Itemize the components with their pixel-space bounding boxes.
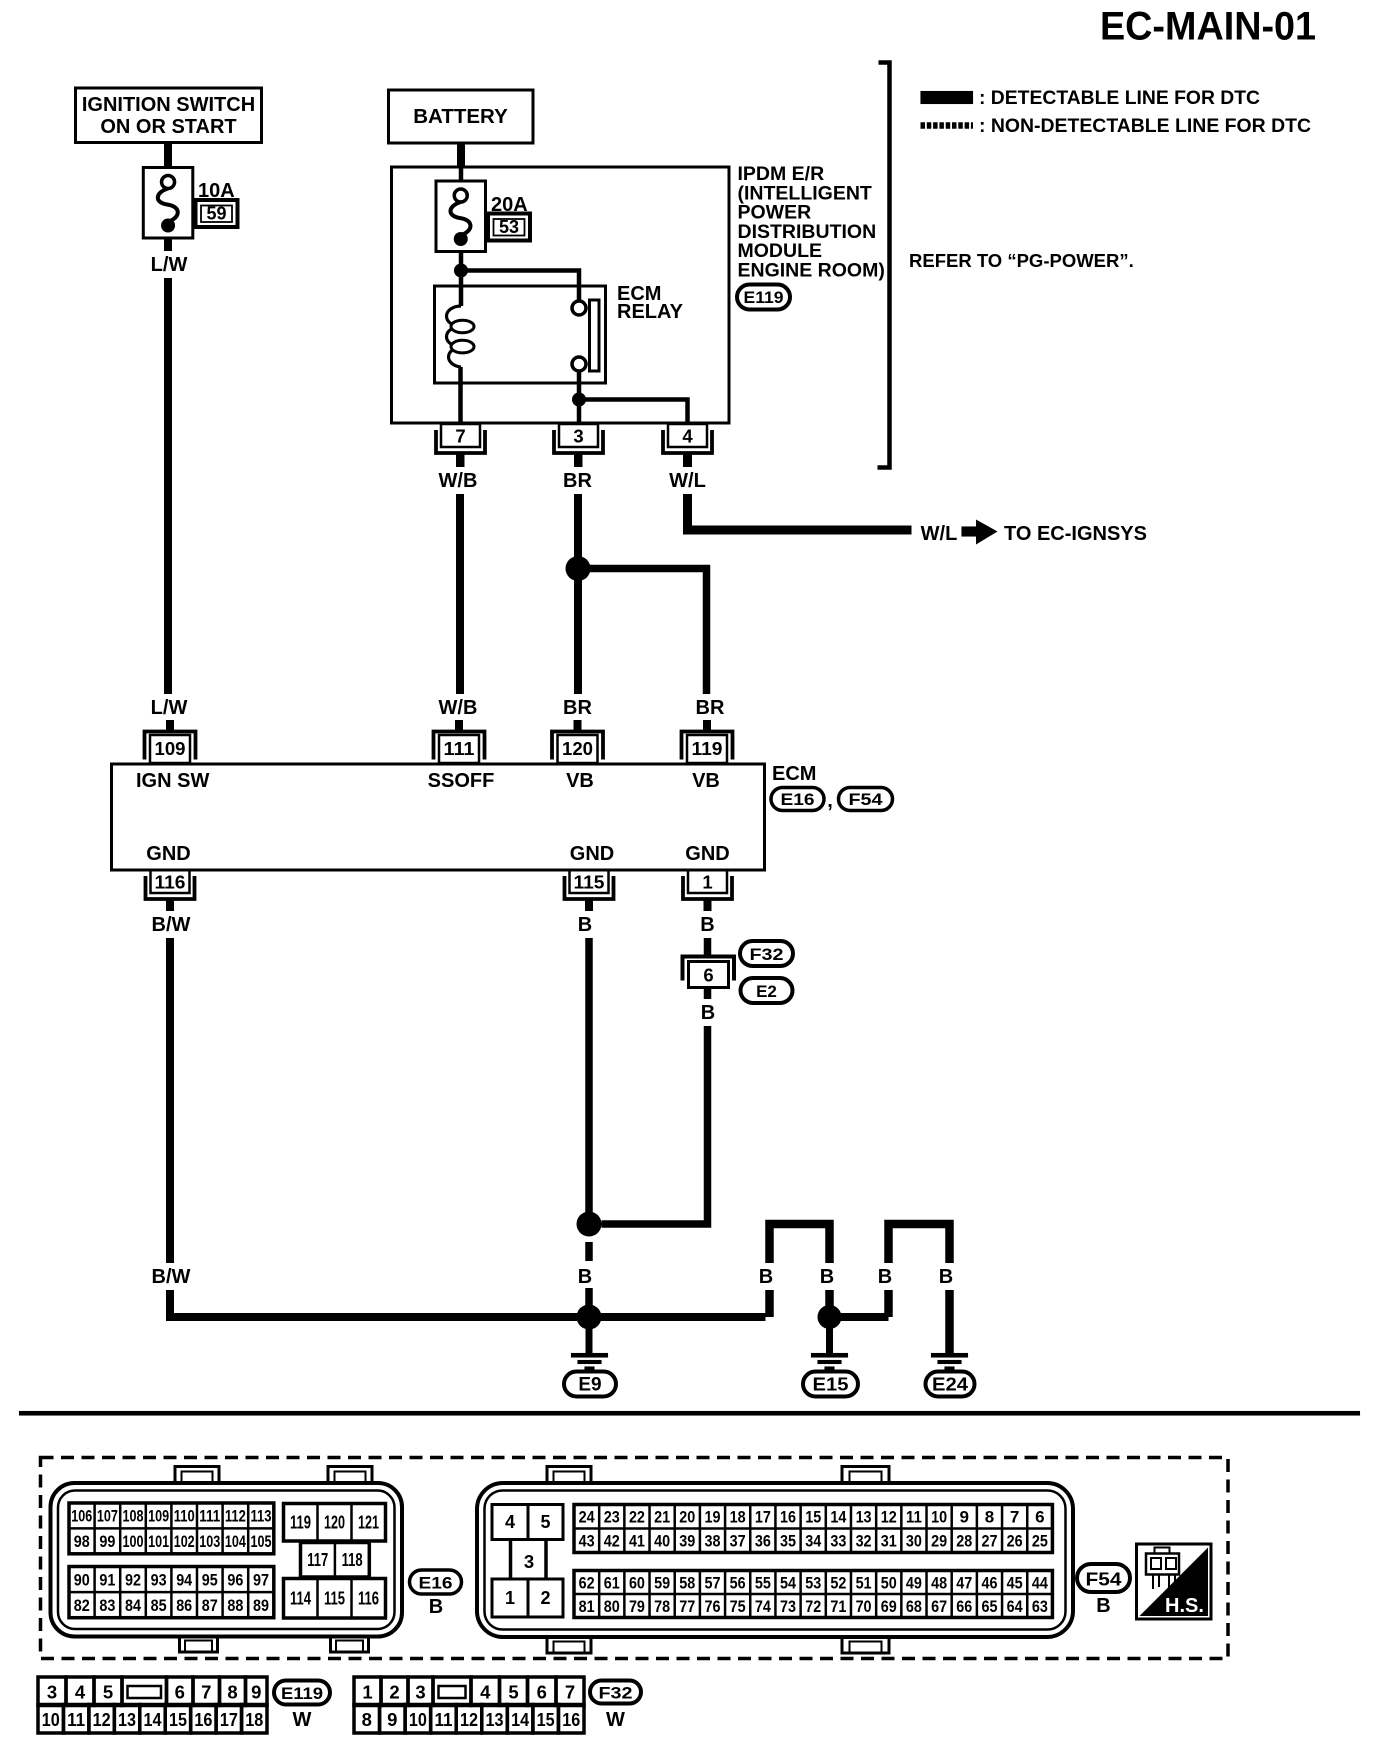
svg-text:31: 31: [881, 1532, 897, 1551]
svg-text:2: 2: [540, 1588, 550, 1608]
E16 terminal row 114-116: [284, 1579, 386, 1619]
connector E119 oval: [737, 285, 790, 310]
svg-text:110: 110: [174, 1507, 195, 1526]
svg-text:52: 52: [830, 1573, 846, 1592]
svg-text:E16: E16: [781, 790, 815, 809]
svg-text:65: 65: [981, 1597, 997, 1616]
svg-text:TO EC-IGNSYS: TO EC-IGNSYS: [1004, 523, 1147, 545]
svg-text:13: 13: [486, 1709, 504, 1730]
ECM pin 1: [683, 870, 732, 914]
svg-text:5: 5: [103, 1682, 113, 1703]
fuse 20A 53: [436, 181, 486, 252]
IPDM pin 3: [554, 424, 603, 468]
connector E2 oval (inline): [741, 978, 793, 1003]
svg-text:51: 51: [856, 1573, 872, 1592]
svg-text:8: 8: [985, 1508, 994, 1527]
svg-text:E24: E24: [932, 1375, 968, 1395]
svg-text:17: 17: [220, 1709, 238, 1730]
svg-text:ENGINE ROOM): ENGINE ROOM): [738, 260, 885, 282]
svg-text:79: 79: [629, 1597, 645, 1616]
E16 terminal grid upper-left: [69, 1503, 274, 1554]
svg-text:119: 119: [692, 738, 723, 759]
svg-text:75: 75: [730, 1597, 746, 1616]
ECM pin 111: [434, 720, 485, 763]
svg-text:14: 14: [830, 1508, 846, 1527]
svg-text:42: 42: [604, 1532, 620, 1551]
wire color label W/B upper: [433, 467, 483, 494]
svg-text:109: 109: [148, 1507, 169, 1526]
svg-text:109: 109: [155, 738, 186, 759]
svg-text:114: 114: [290, 1588, 311, 1608]
svg-text:40: 40: [654, 1532, 670, 1551]
svg-text:104: 104: [225, 1532, 246, 1551]
ECM pin name IGN SW: [136, 770, 209, 792]
svg-text:71: 71: [830, 1597, 846, 1616]
svg-text:50: 50: [881, 1573, 897, 1592]
svg-text:53: 53: [805, 1573, 821, 1592]
svg-text:B/W: B/W: [152, 914, 191, 936]
svg-text:49: 49: [906, 1573, 922, 1592]
svg-text:73: 73: [780, 1597, 796, 1616]
label ECM: [772, 763, 816, 785]
svg-text:60: 60: [629, 1573, 645, 1592]
connector detail dashed frame: [41, 1458, 1229, 1659]
svg-text:15: 15: [537, 1709, 555, 1730]
wire ground bus to bridge 1: [589, 1313, 766, 1321]
title EC-MAIN-01: [1100, 5, 1316, 49]
svg-text:6: 6: [703, 965, 713, 986]
legend detectable line sample: [921, 91, 974, 104]
svg-text:5: 5: [540, 1512, 550, 1532]
wire ECM pin 115 to junction (B): [585, 901, 593, 1224]
svg-text:121: 121: [358, 1512, 379, 1532]
H.S. icon: [1137, 1544, 1212, 1619]
wire color label L/W lower: [145, 694, 193, 721]
wire color label B/W lower: [146, 1263, 196, 1290]
svg-text:36: 36: [755, 1532, 771, 1551]
svg-text:101: 101: [148, 1532, 169, 1551]
wire relay contact to pin 3: [577, 371, 582, 424]
svg-text:29: 29: [931, 1532, 947, 1551]
IPDM label text: [738, 163, 885, 282]
ECM relay box: [435, 286, 606, 383]
svg-text:66: 66: [956, 1597, 972, 1616]
E16 terminal row 117-118: [301, 1543, 370, 1578]
svg-text:6: 6: [175, 1682, 185, 1703]
svg-text:4: 4: [682, 426, 693, 447]
svg-text:W: W: [293, 1709, 312, 1731]
svg-text:1: 1: [702, 872, 712, 893]
svg-text:102: 102: [174, 1532, 195, 1551]
svg-text:W: W: [606, 1709, 625, 1731]
F54 terminal grid upper: [574, 1505, 1052, 1553]
wire color label B (below connector 6): [695, 999, 721, 1026]
svg-text:4: 4: [505, 1512, 515, 1532]
ECM pin 109: [145, 720, 196, 763]
wire color label BR branch: [692, 694, 728, 721]
ground oval E15: [803, 1372, 858, 1397]
wire color label B (115): [572, 911, 598, 938]
svg-text:B: B: [939, 1266, 953, 1288]
svg-text:B: B: [578, 1266, 592, 1288]
svg-text:100: 100: [123, 1532, 144, 1551]
wire E15 dot to bridge 2: [830, 1313, 889, 1321]
svg-text:28: 28: [956, 1532, 972, 1551]
connector E16 oval (face): [410, 1570, 462, 1594]
svg-text:,: ,: [827, 790, 833, 812]
svg-text:59: 59: [654, 1573, 670, 1592]
svg-text:14: 14: [144, 1709, 163, 1730]
wire color label BR upper: [560, 467, 596, 494]
connector F54 oval (face): [1077, 1564, 1130, 1592]
svg-text:82: 82: [74, 1596, 90, 1615]
svg-text:62: 62: [579, 1573, 595, 1592]
svg-text:81: 81: [579, 1597, 595, 1616]
svg-text:E9: E9: [578, 1375, 601, 1396]
wire bridge 1 (B-B): [770, 1224, 830, 1317]
svg-text:24: 24: [579, 1508, 595, 1527]
svg-text:64: 64: [1007, 1597, 1023, 1616]
label B (E16 face): [429, 1596, 443, 1618]
arrow to EC-IGNSYS: [962, 520, 998, 545]
IPDM E/R box: [392, 167, 730, 423]
svg-text:117: 117: [307, 1550, 328, 1570]
label TO EC-IGNSYS: [1004, 523, 1147, 545]
wire pin 7 to ECM pin 111 (W/B): [456, 455, 464, 700]
wire color label B (pin1): [695, 911, 721, 938]
svg-text:10: 10: [931, 1508, 947, 1527]
connector face E16 shell: [51, 1467, 403, 1653]
svg-text:33: 33: [830, 1532, 846, 1551]
svg-text:7: 7: [201, 1682, 211, 1703]
legend non-detectable line sample: [921, 122, 974, 129]
svg-text:BR: BR: [563, 697, 592, 719]
svg-text:F54: F54: [1086, 1570, 1122, 1590]
svg-text:11: 11: [67, 1709, 85, 1730]
ECM pin 115: [565, 870, 614, 914]
F54 terminal 4: [492, 1505, 528, 1540]
svg-text:88: 88: [227, 1596, 243, 1615]
svg-text:6: 6: [537, 1682, 547, 1703]
ECM pin name VB (119): [692, 770, 720, 792]
wire E15 dot to ground: [826, 1317, 833, 1353]
svg-text:97: 97: [253, 1570, 269, 1589]
connector face E119 grid: [38, 1677, 267, 1733]
ECM pin 120: [552, 720, 603, 763]
ECM pin 119: [682, 720, 733, 763]
legend non-detectable text: [979, 116, 1311, 137]
IPDM pin 7: [436, 424, 485, 468]
separator line: [19, 1411, 1360, 1416]
junction dot relay output: [572, 393, 586, 407]
svg-text:4: 4: [75, 1682, 86, 1703]
junction dot B lower (E9): [577, 1305, 602, 1330]
E16 terminal row 119-121: [284, 1504, 386, 1542]
wire color label L/W upper: [145, 251, 193, 278]
svg-text:L/W: L/W: [151, 697, 188, 719]
wire fuse 59 to ECM pin 109 (L/W): [164, 238, 172, 700]
svg-text:BR: BR: [563, 470, 592, 492]
svg-text:9: 9: [960, 1508, 969, 1527]
svg-text:86: 86: [176, 1596, 192, 1615]
svg-text:38: 38: [704, 1532, 720, 1551]
svg-text:11: 11: [434, 1709, 452, 1730]
svg-text:7: 7: [1010, 1508, 1019, 1527]
fuse rating 20A: [491, 194, 528, 216]
svg-text:IGNITION SWITCH: IGNITION SWITCH: [82, 94, 255, 116]
comma: [827, 790, 833, 812]
svg-text:B: B: [1096, 1595, 1110, 1617]
svg-text:39: 39: [679, 1532, 695, 1551]
svg-text:25: 25: [1032, 1532, 1048, 1551]
svg-text:76: 76: [704, 1597, 720, 1616]
junction dot E15: [818, 1305, 842, 1329]
svg-text:15: 15: [805, 1508, 821, 1527]
svg-text:1: 1: [505, 1588, 515, 1608]
svg-text:27: 27: [981, 1532, 997, 1551]
svg-text:12: 12: [881, 1508, 897, 1527]
svg-text:120: 120: [324, 1512, 345, 1532]
F54 terminal 2: [528, 1579, 563, 1617]
ECM pin name GND (115): [570, 843, 614, 865]
svg-text:11: 11: [906, 1508, 922, 1527]
svg-text:44: 44: [1032, 1573, 1048, 1592]
svg-text:115: 115: [574, 872, 605, 893]
svg-text:10: 10: [409, 1709, 427, 1730]
wire battery to IPDM: [457, 143, 465, 167]
wire color label B (between dots): [578, 1266, 592, 1288]
svg-text:BR: BR: [696, 697, 725, 719]
svg-text:37: 37: [730, 1532, 746, 1551]
svg-text:18: 18: [245, 1709, 263, 1730]
svg-text:106: 106: [71, 1507, 92, 1526]
svg-text:B: B: [429, 1596, 443, 1618]
junction dot B upper: [577, 1212, 602, 1237]
svg-text:GND: GND: [685, 843, 729, 865]
svg-text:46: 46: [981, 1573, 997, 1592]
svg-text:26: 26: [1007, 1532, 1023, 1551]
svg-text:47: 47: [956, 1573, 972, 1592]
svg-text:IGN SW: IGN SW: [136, 770, 209, 792]
svg-text:: NON-DETECTABLE LINE FOR DTC: : NON-DETECTABLE LINE FOR DTC: [979, 116, 1311, 137]
ground oval E9: [564, 1372, 616, 1397]
svg-text:F54: F54: [849, 790, 884, 809]
svg-text:4: 4: [480, 1682, 491, 1703]
connector E119 oval (face): [274, 1681, 330, 1705]
note REFER TO PG-POWER: [909, 250, 1134, 271]
svg-text:84: 84: [125, 1596, 141, 1615]
svg-text:17: 17: [755, 1508, 771, 1527]
svg-text:VB: VB: [566, 770, 594, 792]
svg-text:16: 16: [562, 1709, 580, 1730]
svg-text:E16: E16: [419, 1574, 453, 1593]
F54 terminal 3 link: [511, 1540, 547, 1580]
ECM pin 116: [146, 870, 195, 914]
svg-text:22: 22: [629, 1508, 645, 1527]
svg-text:10: 10: [42, 1709, 60, 1730]
svg-text:BATTERY: BATTERY: [413, 105, 508, 128]
svg-text:B: B: [701, 1002, 715, 1024]
svg-text:85: 85: [151, 1596, 167, 1615]
wire relay coil to pin 7: [458, 367, 463, 424]
label W (F32 face): [606, 1709, 625, 1731]
svg-text:12: 12: [93, 1709, 111, 1730]
svg-text:30: 30: [906, 1532, 922, 1551]
svg-text:VB: VB: [692, 770, 720, 792]
fuse rating 10A: [198, 180, 235, 202]
svg-text:REFER TO “PG-POWER”.: REFER TO “PG-POWER”.: [909, 250, 1134, 271]
wire ECM pin 1 to inline connector 6 (B): [704, 901, 712, 956]
svg-text:113: 113: [251, 1507, 272, 1526]
svg-text:8: 8: [227, 1682, 237, 1703]
ECM pin name VB (120): [566, 770, 594, 792]
connector face F32 grid: [354, 1677, 584, 1733]
svg-text:43: 43: [579, 1532, 595, 1551]
label ECM RELAY: [617, 283, 684, 323]
svg-text:E119: E119: [281, 1685, 323, 1703]
svg-text:99: 99: [99, 1532, 115, 1551]
svg-text:54: 54: [780, 1573, 796, 1592]
ground symbol E15: [811, 1353, 848, 1370]
svg-text:9: 9: [251, 1682, 261, 1703]
svg-text:74: 74: [755, 1597, 771, 1616]
svg-text:W/B: W/B: [439, 697, 478, 719]
F54 terminal 1: [492, 1579, 528, 1617]
label B (F54 face): [1096, 1595, 1110, 1617]
bracket refer-note: [878, 63, 890, 468]
wire color label B (bridge1 left): [753, 1263, 779, 1290]
svg-text:59: 59: [206, 204, 226, 224]
svg-text:ON OR START: ON OR START: [100, 116, 236, 138]
svg-text:F32: F32: [599, 1684, 633, 1703]
svg-text:120: 120: [562, 738, 593, 759]
svg-text:96: 96: [227, 1570, 243, 1589]
svg-text:RELAY: RELAY: [617, 301, 684, 323]
wire battery feed to fuse 53: [459, 167, 464, 181]
svg-text:63: 63: [1032, 1597, 1048, 1616]
svg-text:93: 93: [151, 1570, 167, 1589]
wire color label BR lower: [560, 694, 596, 721]
label W (E119 face): [293, 1709, 312, 1731]
svg-text:16: 16: [780, 1508, 796, 1527]
svg-text:20: 20: [679, 1508, 695, 1527]
svg-text:8: 8: [362, 1709, 372, 1730]
svg-text:W/B: W/B: [439, 470, 478, 492]
svg-text:89: 89: [253, 1596, 269, 1615]
connector face F54 shell: [477, 1467, 1073, 1654]
svg-text:116: 116: [155, 872, 186, 893]
svg-text:B: B: [820, 1266, 834, 1288]
E16 terminal grid lower-left: [69, 1567, 274, 1618]
svg-text:55: 55: [755, 1573, 771, 1592]
svg-text:111: 111: [199, 1507, 220, 1526]
svg-text:15: 15: [169, 1709, 187, 1730]
svg-text:E15: E15: [813, 1375, 849, 1395]
legend detectable text: [979, 88, 1260, 109]
svg-text:80: 80: [604, 1597, 620, 1616]
junction dot fuse output: [454, 264, 468, 278]
relay contact: [572, 300, 599, 371]
svg-text:7: 7: [455, 426, 465, 447]
ground symbol E9: [571, 1353, 608, 1370]
svg-text:6: 6: [1035, 1508, 1044, 1527]
svg-text:45: 45: [1007, 1573, 1023, 1592]
wire connector 6 to junction: [602, 988, 708, 1225]
svg-text:E119: E119: [744, 288, 784, 307]
svg-text:14: 14: [511, 1709, 530, 1730]
svg-text:32: 32: [856, 1532, 872, 1551]
connector E16 oval (ECM): [771, 788, 824, 811]
wire BR branch to ECM pin 119: [578, 569, 707, 701]
svg-text:87: 87: [202, 1596, 218, 1615]
svg-text:23: 23: [604, 1508, 620, 1527]
svg-text:118: 118: [342, 1550, 363, 1570]
svg-text:94: 94: [176, 1570, 192, 1589]
svg-text:13: 13: [118, 1709, 136, 1730]
svg-text:119: 119: [290, 1512, 311, 1532]
ignition switch box: [76, 88, 262, 143]
svg-text:3: 3: [573, 426, 583, 447]
ECM box: [112, 764, 765, 870]
svg-text:48: 48: [931, 1573, 947, 1592]
wire pin 4 to EC-IGNSYS (W/L): [688, 455, 912, 530]
svg-text:E2: E2: [756, 982, 777, 1001]
svg-text:3: 3: [415, 1682, 425, 1703]
svg-text:9: 9: [387, 1709, 397, 1730]
svg-text:116: 116: [358, 1588, 379, 1608]
wire color label B/W upper: [146, 911, 196, 938]
svg-text:21: 21: [654, 1508, 670, 1527]
svg-text:F32: F32: [750, 945, 784, 964]
svg-text:W/L: W/L: [669, 470, 706, 492]
svg-text:53: 53: [499, 217, 519, 237]
svg-text:92: 92: [125, 1570, 141, 1589]
wire junction to relay contact: [461, 271, 579, 302]
wire junction to relay coil: [459, 271, 464, 307]
svg-text:GND: GND: [570, 843, 614, 865]
relay coil: [447, 306, 475, 367]
dashed wire junction to ground junction: [585, 1242, 593, 1306]
wire color label W/B lower: [433, 694, 483, 721]
svg-text:5: 5: [508, 1682, 518, 1703]
wire bridge 2 (B-B) to ground E24: [889, 1224, 950, 1353]
svg-text:B: B: [700, 914, 714, 936]
connector F54 oval (ECM): [839, 788, 893, 811]
svg-text:W/L: W/L: [921, 523, 958, 545]
svg-text:7: 7: [565, 1682, 575, 1703]
svg-text:115: 115: [324, 1588, 345, 1608]
fuse number box 53: [488, 214, 530, 241]
svg-text:91: 91: [99, 1570, 115, 1589]
wire fuse 53 to junction: [459, 252, 464, 271]
svg-text:77: 77: [679, 1597, 695, 1616]
svg-text:EC-MAIN-01: EC-MAIN-01: [1100, 5, 1316, 49]
svg-text:78: 78: [654, 1597, 670, 1616]
wire pin 3 to ECM pin 120 (BR): [574, 455, 582, 700]
svg-text:B: B: [578, 914, 592, 936]
wire relay output to pin 4: [579, 400, 688, 425]
svg-text:57: 57: [704, 1573, 720, 1592]
wire color label W/L upper: [664, 467, 712, 494]
svg-text:56: 56: [730, 1573, 746, 1592]
svg-text:SSOFF: SSOFF: [428, 770, 495, 792]
svg-text:67: 67: [931, 1597, 947, 1616]
connector F32 oval (inline): [740, 941, 793, 966]
label W/L at arrow: [921, 523, 958, 545]
ground oval E24: [926, 1372, 975, 1397]
wire dot to ground E9: [586, 1317, 593, 1353]
svg-text:35: 35: [780, 1532, 796, 1551]
